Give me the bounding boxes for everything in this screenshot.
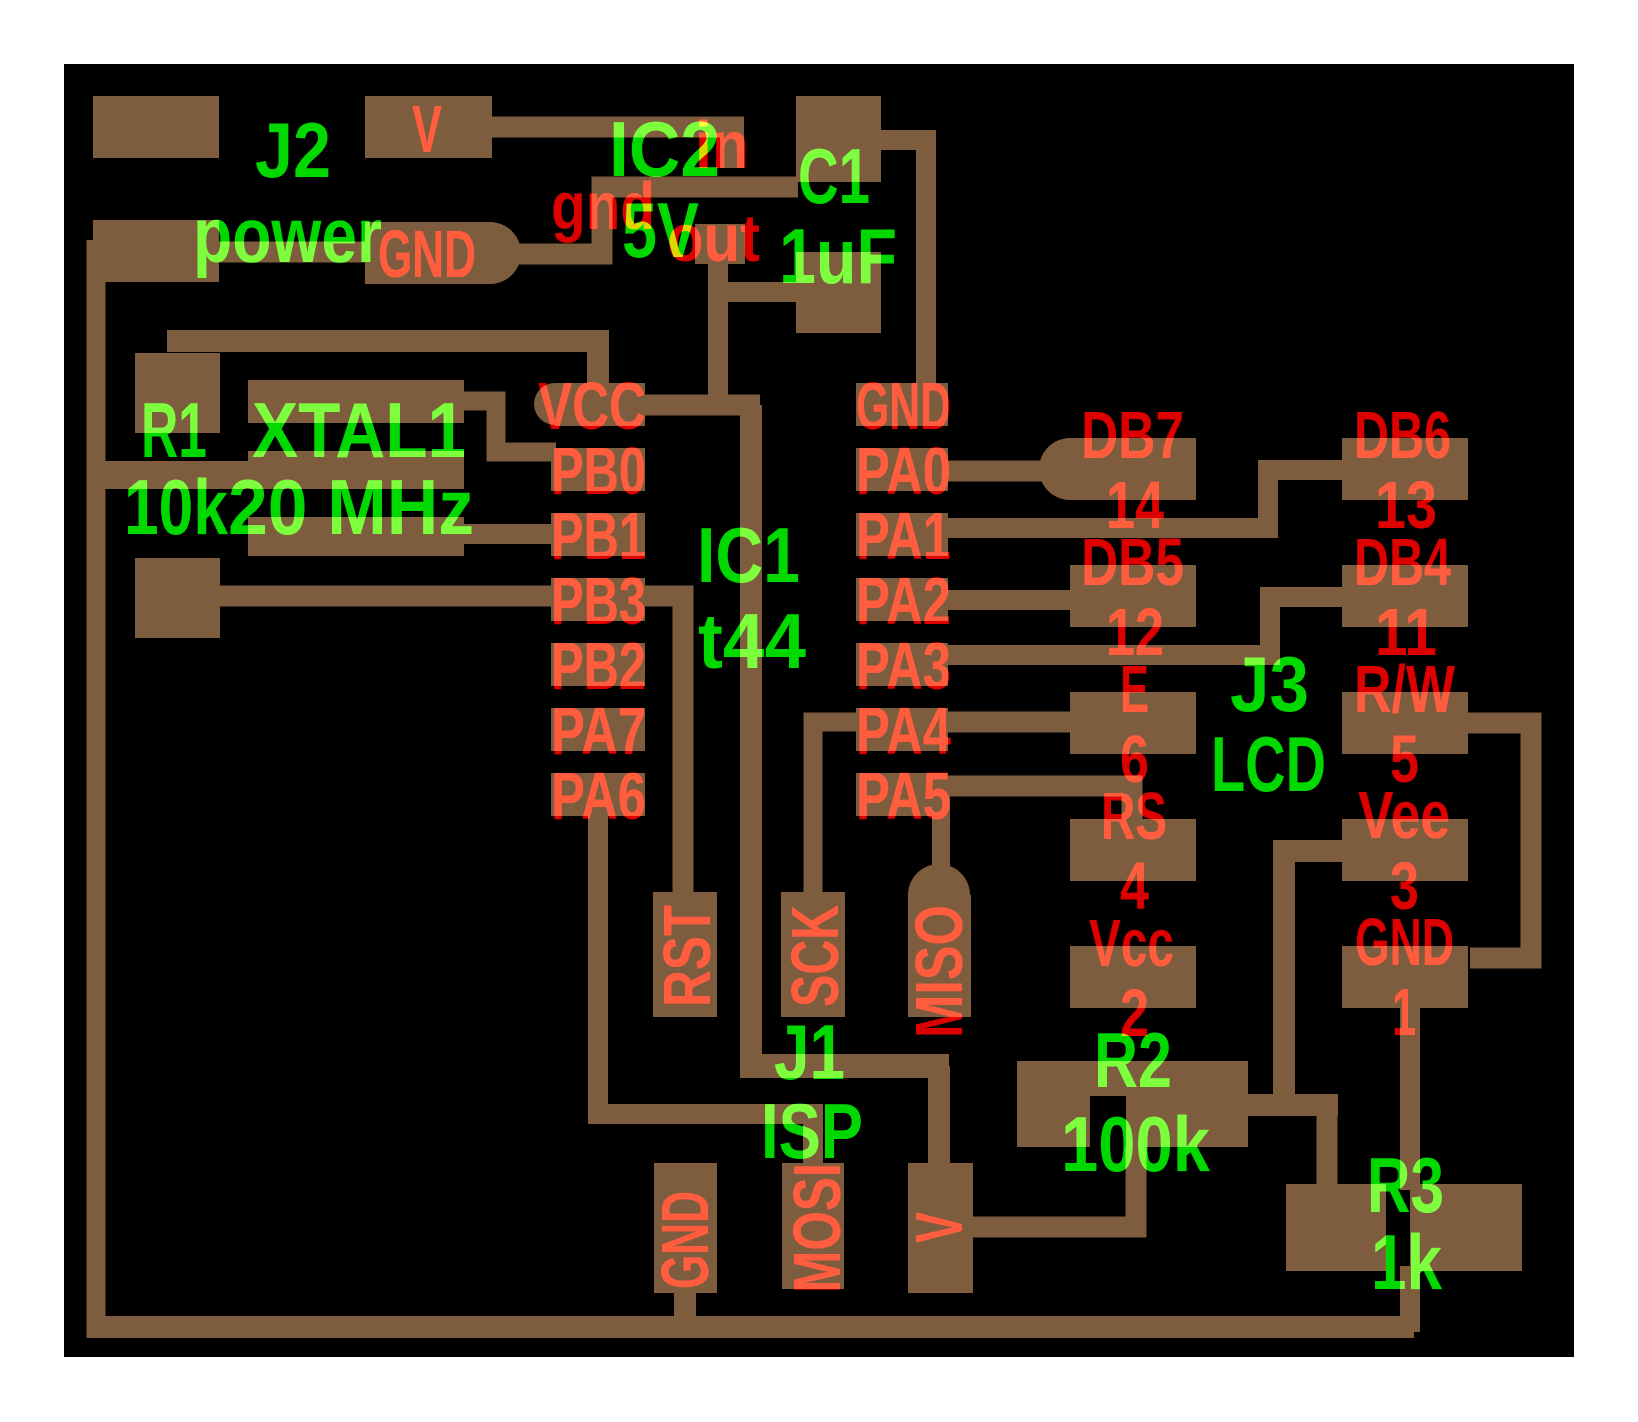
capacitor C1 pad 2 [796, 252, 881, 333]
resistor R3 pad 1 [1286, 1184, 1386, 1271]
wire GND bottom rail [87, 1316, 1414, 1338]
resistor R1 pad 1 [135, 353, 220, 433]
svg-text:power: power [193, 191, 382, 279]
J3 pad GND/1 [1342, 946, 1468, 1008]
J3 pad DB4/11 [1342, 565, 1468, 627]
svg-text:J3: J3 [1230, 640, 1309, 728]
svg-text:PB0: PB0 [551, 434, 646, 509]
potentiometer R2 pads [1017, 1061, 1248, 1147]
IC1 pad PA1 [856, 513, 948, 556]
wire V pad to R2-2 rail [970, 1140, 1136, 1227]
J3 pad E/6 [1070, 692, 1196, 754]
svg-text:DB4: DB4 [1354, 525, 1451, 600]
svg-text:1: 1 [1392, 975, 1416, 1050]
svg-text:J1: J1 [774, 1008, 845, 1096]
svg-text:1k: 1k [1371, 1218, 1443, 1306]
svg-text:PA5: PA5 [856, 759, 951, 834]
svg-text:t44: t44 [698, 597, 806, 685]
IC1 pad PA7 [551, 708, 645, 751]
wire 5V to IC1 VCC [645, 395, 760, 416]
svg-text:R/W: R/W [1354, 652, 1456, 727]
J1 pad RST [653, 892, 717, 1017]
wire PA1 to DB6 [944, 470, 1346, 528]
wire R/W to GND pin1 [1466, 723, 1531, 958]
svg-text:J2: J2 [255, 106, 331, 194]
svg-text:1uF: 1uF [779, 212, 897, 300]
svg-text:Vcc: Vcc [1089, 906, 1174, 981]
svg-text:ISP: ISP [761, 1087, 863, 1175]
svg-text:V: V [412, 92, 442, 167]
wire GND left vertical [87, 240, 106, 1338]
svg-text:MOSI: MOSI [780, 1163, 855, 1293]
pad GND (J2 power GND) [365, 222, 490, 284]
svg-text:PA2: PA2 [856, 564, 951, 639]
regulator IC2 pad out [695, 224, 745, 264]
resistor R3 pad 2 [1410, 1184, 1522, 1271]
wire PA5 to MISO [932, 795, 950, 868]
svg-text:GND: GND [378, 217, 476, 292]
wire Vee horizontal [1240, 1094, 1338, 1116]
svg-text:XTAL1: XTAL1 [252, 386, 466, 474]
J3 pad Vcc/2 [1070, 946, 1196, 1008]
svg-text:R3: R3 [1367, 1141, 1444, 1229]
J3 pad DB6/13 [1342, 438, 1468, 500]
wire 5V vertical [740, 405, 762, 1066]
IC1 pad PB2 [551, 643, 645, 686]
svg-text:100k: 100k [1061, 1100, 1211, 1188]
svg-text:RST: RST [650, 905, 725, 1007]
IC1 pad GND [856, 383, 948, 426]
J1 pad SCK [781, 892, 845, 1017]
svg-text:DB7: DB7 [1081, 398, 1184, 473]
svg-text:10k: 10k [124, 463, 228, 551]
J1 pad GND [654, 1163, 717, 1293]
svg-text:PB2: PB2 [551, 629, 646, 704]
svg-text:IC1: IC1 [697, 511, 800, 599]
crystal XTAL1 pad 2 [248, 517, 464, 556]
svg-text:PA1: PA1 [856, 499, 951, 574]
IC1 pad PA5 [856, 773, 948, 816]
svg-text:Vee: Vee [1358, 778, 1450, 853]
svg-text:R2: R2 [1094, 1016, 1172, 1104]
wire PA5 to RS [944, 786, 1132, 825]
IC1 pad PA2 [856, 578, 948, 621]
wire PA4 to SCK [813, 722, 860, 894]
wire J2-2 to GND pad [200, 242, 370, 263]
svg-text:PA7: PA7 [551, 694, 646, 769]
guard band GND [248, 451, 464, 489]
svg-text:R1: R1 [141, 386, 207, 474]
IC1 pad PB3 [551, 578, 645, 621]
IC1 pad PB0 [551, 448, 645, 491]
wire V to IC2 in [490, 117, 744, 138]
connector J2 pad 1 [93, 96, 219, 158]
svg-text:C1: C1 [798, 132, 870, 220]
svg-text:SCK: SCK [778, 905, 853, 1007]
svg-text:PB3: PB3 [551, 564, 646, 639]
wire out to C1-2 [718, 282, 798, 302]
capacitor C1 pad 1 [796, 96, 881, 182]
IC1 pad PA6 [551, 773, 645, 816]
wire PA4 to E [944, 712, 1074, 733]
resistor R1 pad 2 [135, 558, 220, 638]
svg-text:V: V [902, 1212, 977, 1243]
svg-text:DB6: DB6 [1354, 398, 1451, 473]
wire R3-2 to rail [1400, 1266, 1420, 1332]
svg-text:VCC: VCC [538, 369, 646, 444]
svg-text:MISO: MISO [902, 905, 977, 1038]
J3 pad R/W/5 [1342, 692, 1468, 754]
wire Vee to R2/R3 [1284, 851, 1344, 1105]
wire R1-1 to VCC [167, 341, 598, 390]
wire R1-2 to PB3 to RST [150, 596, 683, 900]
svg-text:GND: GND [648, 1191, 723, 1289]
svg-text:PA0: PA0 [856, 434, 951, 509]
wire PA2 to DB5 [944, 590, 1074, 610]
svg-text:IC2: IC2 [609, 105, 720, 193]
IC1 pad PA0 [856, 448, 948, 491]
J3 pad Vee/3 [1342, 819, 1468, 881]
wire GND to guard band [87, 461, 250, 489]
svg-text:PA6: PA6 [551, 759, 646, 834]
svg-text:20 MHz: 20 MHz [228, 463, 474, 551]
wire PA0 to DB7 [944, 461, 1050, 482]
J1 pad MISO [908, 895, 971, 1017]
svg-text:GND: GND [856, 369, 951, 444]
J1 pad MOSI [782, 1163, 844, 1289]
wire XTAL1-2 to PB1 [462, 524, 556, 544]
IC1 pad VCC [555, 383, 645, 426]
wire PA6 to MOSI [598, 814, 813, 1165]
J3 pad RS/4 [1070, 819, 1196, 881]
connector J2 pad 2 [93, 220, 219, 282]
svg-text:5V: 5V [622, 186, 699, 274]
svg-text:RS: RS [1101, 779, 1167, 854]
wire GND1 to R3-2 [1400, 1005, 1420, 1190]
crystal XTAL1 pad 1 [248, 380, 464, 423]
wire C1-1 to IC1 GND [878, 140, 926, 392]
svg-text:DB5: DB5 [1081, 525, 1184, 600]
svg-text:PA3: PA3 [856, 629, 951, 704]
pad V (J2 power V) [365, 96, 492, 158]
IC1 pad PA3 [856, 643, 948, 686]
IC1 pad PA4 [856, 708, 948, 751]
svg-text:PB1: PB1 [551, 499, 646, 574]
J3 pad DB5/12 [1070, 565, 1196, 627]
svg-text:GND: GND [1355, 905, 1454, 980]
svg-text:PA4: PA4 [856, 694, 951, 769]
svg-text:E: E [1120, 652, 1149, 727]
wire XTAL1-1 to PB0 [462, 401, 556, 452]
regulator IC2 pad in [720, 127, 744, 168]
wire IC2 out down [708, 255, 728, 415]
wire PA3 to DB4 [944, 597, 1346, 655]
svg-text:LCD: LCD [1211, 720, 1326, 808]
wire 5V corner [740, 1054, 949, 1078]
wire 5V to J1 V pad [928, 1066, 950, 1170]
wire down to R3-1 [1317, 1100, 1338, 1190]
R2 pad gap [1090, 1096, 1126, 1147]
wire GND pad to IC2 gnd [505, 187, 798, 254]
J3 pad DB7/14 [1070, 438, 1196, 500]
wire J1 GND stub [674, 1290, 696, 1332]
J1 pad V [908, 1163, 973, 1293]
IC1 pad PB1 [551, 513, 645, 556]
